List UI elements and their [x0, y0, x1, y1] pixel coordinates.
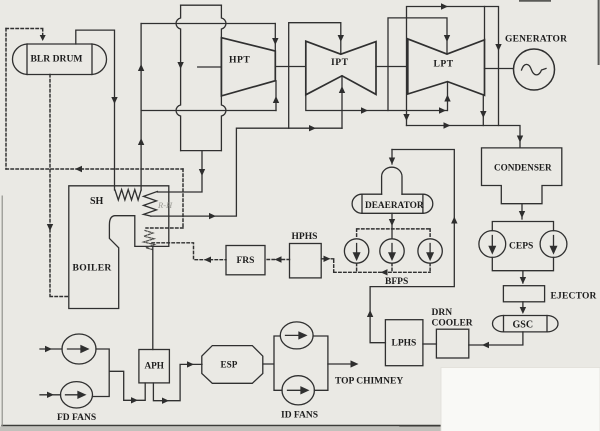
wire FD fans discharge: [92, 349, 145, 400]
turbine IPT: [306, 41, 376, 95]
arrow down into condenser: [517, 136, 523, 143]
arrow up on SH riser low: [138, 138, 144, 145]
arrow down inside steam chest: [177, 62, 183, 69]
wire cold reheat drop: [157, 151, 202, 192]
svg-text:ID FANS: ID FANS: [281, 411, 318, 421]
wire ejector to GSC: [522, 302, 524, 312]
wire hot reheat run: [151, 128, 342, 216]
arrow in BFPS middle pump: [389, 244, 395, 260]
wire LPHS to deaerator riser: [370, 150, 454, 343]
arrow down into LPT top: [444, 35, 450, 42]
BFPS dashed discharge manifold: [321, 259, 430, 273]
wire ID fans to chimney: [328, 363, 355, 365]
boiler outline: [69, 186, 169, 309]
page top-right border: [520, 0, 599, 64]
BFPS dashed suction manifold: [357, 229, 431, 239]
arrow in ID top fan: [286, 332, 307, 338]
wire hot reheat riser to IPT top: [289, 23, 341, 129]
svg-text:APH: APH: [145, 361, 164, 371]
pump CEPS right: [540, 231, 567, 258]
svg-text:DEAERATOR: DEAERATOR: [365, 201, 424, 211]
white patch bottom-right: [441, 368, 600, 431]
arrow down into deaerator: [389, 158, 395, 165]
arrow right under APH: [162, 398, 169, 404]
wire main steam upper: [141, 23, 275, 25]
arrow in BFPS left pump: [354, 244, 360, 260]
svg-text:HPT: HPT: [229, 55, 250, 66]
arrow right on hot reheat high: [309, 125, 316, 131]
wire SH outlet riser: [140, 24, 142, 191]
dashed feedwater line into drum top: [6, 29, 43, 39]
fan ID top: [280, 322, 313, 349]
page bottom border: [2, 425, 443, 428]
svg-text:ESP: ESP: [221, 359, 238, 369]
shaft HPT-IPT: [275, 66, 306, 68]
arrow in BFPS right pump: [427, 244, 433, 260]
svg-text:CEPS: CEPS: [509, 242, 533, 252]
arrow up on SH riser high: [138, 64, 144, 71]
flue gas duct to APH: [152, 246, 154, 349]
gland steam cooler GSC: [493, 316, 559, 332]
pump BFPS right: [418, 239, 442, 263]
wire DRN cooler to LPHS: [423, 343, 437, 345]
deaerator: [352, 167, 433, 213]
arrow on FD bottom inlet: [47, 392, 54, 398]
arrow down on bypass left: [403, 114, 409, 121]
dashed downcomer from drum: [50, 75, 69, 297]
arrow left to DRN cooler: [482, 342, 489, 348]
arrow in ID bottom fan: [288, 387, 309, 393]
arrow down on cold reheat: [199, 169, 205, 176]
svg-text:EJECTOR: EJECTOR: [551, 292, 597, 302]
dashed HPHS to FRS: [265, 259, 290, 261]
wire IPT exhaust manifold: [306, 95, 447, 111]
arrow left on BFPS discharge: [381, 269, 388, 275]
svg-text:FRS: FRS: [237, 256, 255, 266]
arrow left into economiser leg: [204, 257, 211, 263]
arrow right to chimney: [351, 360, 359, 367]
steam chest column: [176, 5, 226, 150]
svg-text:IPT: IPT: [331, 57, 349, 68]
arrow right on manifold at LPT: [439, 107, 446, 113]
arrow in FD bottom fan: [66, 392, 86, 398]
arrow right on bypass top: [441, 3, 448, 9]
svg-text:BFPS: BFPS: [385, 277, 408, 287]
arrow up on LPHS riser: [367, 310, 373, 317]
wire HPT bottom connection: [275, 81, 277, 111]
turbine HPT: [221, 38, 275, 96]
shaft IPT-LPT: [376, 66, 408, 68]
arrow down on steam lead: [111, 97, 117, 104]
arrow into drum: [40, 35, 46, 41]
economiser scribble: [144, 231, 155, 250]
svg-text:HPHS: HPHS: [292, 232, 318, 242]
ejector box: [503, 286, 544, 302]
pump BFPS left: [344, 239, 368, 263]
pump BFPS middle: [380, 239, 404, 263]
arrow in FD top fan: [68, 346, 89, 352]
wire drop into deaerator: [391, 150, 393, 165]
wire FD bottom inlet: [40, 394, 61, 396]
shaft stub in steam chest: [198, 66, 222, 68]
arrow down to ejector: [520, 277, 526, 284]
arrow in left CEPS pump: [489, 236, 495, 254]
reheater RH coil: [144, 191, 158, 216]
svg-text:COOLER: COOLER: [432, 319, 473, 329]
arrow in right CEPS pump: [551, 236, 557, 254]
wire GSC to DRN cooler: [469, 332, 523, 345]
wire LPT bypass loop: [407, 7, 499, 126]
arrow down to BFPS: [389, 219, 395, 226]
wire FD top inlet: [40, 348, 62, 350]
wire APH flue to ESP: [153, 364, 202, 400]
wire deaerator outlet: [391, 213, 393, 239]
wire condenser header: [407, 126, 521, 148]
generator: [514, 49, 555, 90]
fan ID bottom: [282, 376, 314, 405]
wire drum steam lead: [76, 30, 115, 190]
turbine LPT: [408, 39, 485, 95]
svg-text:GENERATOR: GENERATOR: [505, 35, 567, 45]
page bottom gray strip: [0, 427, 441, 431]
dashed FRS-to-economiser line: [152, 243, 226, 260]
svg-text:LPT: LPT: [434, 59, 454, 70]
LPHS box: [385, 320, 423, 366]
arrow up on deaerator riser: [451, 217, 457, 224]
boiler drum BLR DRUM: [12, 44, 106, 75]
dashed economiser-to-drum line: [6, 168, 183, 170]
pump CEPS left: [479, 231, 506, 258]
arrow down on downcomer: [47, 224, 53, 231]
page left border: [1, 196, 3, 426]
arrow on FD top inlet: [45, 346, 52, 352]
svg-text:R-H: R-H: [157, 200, 173, 210]
shaft LPT-generator: [485, 68, 514, 70]
arrow left into HPHS: [324, 256, 331, 262]
arrow down into HPT: [272, 38, 278, 45]
dashed feedwater left riser: [5, 29, 7, 170]
svg-text:SH: SH: [90, 196, 104, 207]
wire ESP to ID fans: [263, 336, 328, 390]
svg-text:BLR DRUM: BLR DRUM: [31, 54, 83, 65]
wire crossover riser: [388, 18, 447, 111]
ESP vessel: [202, 346, 263, 384]
wire HPT top inlet: [274, 24, 276, 52]
condenser: [482, 148, 562, 204]
FRS box: [226, 246, 265, 275]
superheater SH coil: [115, 190, 141, 201]
svg-text:GSC: GSC: [513, 320, 534, 331]
arrow down into IPT top: [338, 35, 344, 42]
svg-text:BOILER: BOILER: [73, 263, 113, 274]
fan FD top: [62, 334, 96, 364]
arrow up into LPT bottom: [444, 95, 450, 102]
arrow down on LPT right exhaust: [480, 111, 486, 118]
dashed economiser outlet riser: [146, 169, 183, 228]
arrow down on bypass right: [495, 44, 501, 51]
arrow right on condenser header: [444, 122, 451, 128]
wire riser into IPT bottom: [341, 76, 343, 128]
arrow up into HPT bottom: [273, 96, 279, 103]
HPHS box: [290, 244, 322, 278]
wire LPT right exhaust: [482, 95, 484, 125]
wire LPT top right vent: [484, 7, 486, 40]
wire LPT bottom feed: [447, 82, 449, 111]
svg-text:TOP CHIMNEY: TOP CHIMNEY: [335, 377, 403, 387]
wire condenser to CEPS: [492, 204, 553, 231]
generator sine symbol: [522, 64, 547, 75]
fan FD bottom: [61, 382, 93, 408]
arrow left into FRS: [275, 256, 282, 262]
svg-text:CONDENSER: CONDENSER: [494, 163, 552, 173]
APH box: [139, 350, 170, 383]
svg-text:DRN: DRN: [432, 308, 453, 318]
arrow down to CEPS manifold: [519, 211, 525, 218]
wire CEPS discharge: [492, 257, 553, 283]
svg-text:FD FANS: FD FANS: [57, 413, 96, 423]
drain cooler box: [436, 329, 468, 358]
arrow right into ESP: [187, 361, 194, 367]
arrow up into IPT bottom: [339, 86, 345, 93]
arrow down to GSC: [520, 307, 526, 314]
svg-text:LPHS: LPHS: [392, 339, 417, 349]
wire main steam lower: [141, 110, 276, 112]
arrow right on hot reheat low: [209, 213, 216, 219]
arrow left on feed line: [75, 166, 82, 172]
arrow right to APH: [131, 397, 138, 403]
arrow right on manifold: [361, 107, 368, 113]
